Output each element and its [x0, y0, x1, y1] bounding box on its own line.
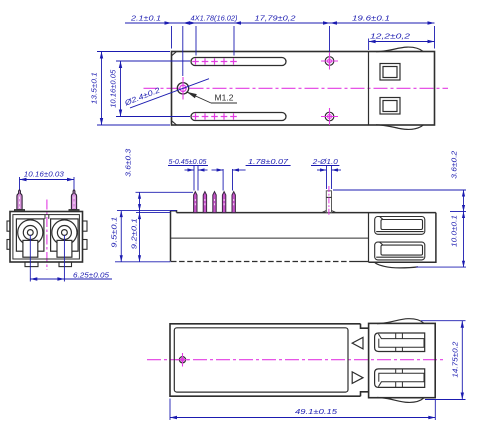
bottom port 2 outer — [375, 369, 425, 388]
side body mid line — [171, 237, 369, 239]
chamfer bottom-left — [172, 121, 177, 125]
svg-text:19.6±0.1: 19.6±0.1 — [352, 14, 390, 23]
left latch box — [23, 240, 38, 257]
right port inner circles — [57, 226, 71, 240]
svg-text:10.0±0.1: 10.0±0.1 — [450, 215, 459, 247]
dimension 14.75 — [421, 321, 466, 400]
triangle marker lower — [352, 372, 363, 384]
arrows row y23 — [165, 21, 435, 24]
leader M1.2 — [186, 92, 237, 103]
svg-text:2.1±0.1: 2.1±0.1 — [130, 14, 161, 23]
bottom tab right — [59, 262, 72, 267]
pin 1 — [194, 192, 197, 213]
right port square — [51, 219, 79, 251]
dimension 10.16 vertical — [116, 61, 190, 117]
pin 4 — [222, 192, 225, 213]
svg-text:10.16±0.05: 10.16±0.05 — [109, 69, 118, 108]
svg-text:5-0.45±0.05: 5-0.45±0.05 — [169, 157, 208, 166]
square hole upper — [380, 64, 400, 81]
side body bottom hidden line — [171, 261, 351, 263]
front view centerline — [46, 200, 48, 271]
side tab right lower — [83, 240, 88, 250]
svg-text:14.75±0.2: 14.75±0.2 — [451, 341, 460, 378]
svg-text:10.16±0.03: 10.16±0.03 — [24, 170, 65, 179]
svg-text:2-Ø1.0: 2-Ø1.0 — [312, 157, 339, 166]
latch arc top — [376, 47, 424, 52]
pin 2 — [203, 192, 206, 213]
centerline bottom view — [147, 359, 445, 361]
front gap notch lines — [45, 215, 49, 219]
leader d2.4 — [130, 79, 209, 108]
bottom view hole — [176, 353, 189, 367]
bottom view connector section — [369, 323, 436, 397]
dimension 3.6±0.2 / 10.0±0.1 right — [333, 190, 466, 267]
connector section divider — [368, 52, 370, 126]
dimension 3.6±0.3 left — [115, 192, 193, 261]
target symbol bottom (hole 2-d1.0) — [321, 108, 338, 125]
latch arc bottom — [376, 125, 424, 130]
dimension 49.1 — [170, 399, 435, 421]
bottom tab left — [25, 262, 38, 267]
dimension 12.2 — [369, 41, 435, 43]
chamfer top-left — [172, 52, 177, 56]
top slot — [191, 58, 286, 66]
dimension line row y23 — [125, 22, 435, 24]
svg-text:13.5±0.1: 13.5±0.1 — [90, 72, 99, 104]
svg-text:M1.2: M1.2 — [215, 92, 234, 102]
dimension 6.25±0.05 — [30, 235, 112, 282]
side bottom arc — [375, 262, 419, 268]
right pin — [69, 190, 79, 212]
triangle marker upper — [352, 337, 363, 349]
svg-text:17,79±0,2: 17,79±0,2 — [255, 14, 297, 23]
front body outer — [10, 212, 83, 263]
hole M1.2 — [177, 77, 188, 100]
bottom port 2 inner — [378, 369, 424, 388]
side slot lower — [375, 242, 425, 260]
bottom port 1 inner — [378, 333, 424, 352]
svg-text:6.25±0.05: 6.25±0.05 — [73, 270, 110, 279]
square hole lower — [380, 98, 400, 115]
bottom port 1 outer — [375, 333, 425, 352]
svg-text:3.6±0.2: 3.6±0.2 — [450, 150, 459, 179]
svg-text:12,2±0,2: 12,2±0,2 — [370, 32, 411, 41]
left port square — [16, 219, 44, 251]
left port inner circles — [23, 226, 37, 240]
bottom latch arc bottom — [377, 398, 424, 403]
svg-text:1.78±0.07: 1.78±0.07 — [248, 157, 289, 166]
side slot upper — [375, 217, 425, 235]
extension lines top row — [172, 26, 435, 76]
side body bottom right solid — [351, 261, 369, 263]
side section right/bottom edge — [369, 213, 436, 263]
right latch box — [57, 240, 72, 257]
bottom latch arc top — [377, 319, 424, 324]
top view body outline — [172, 52, 435, 126]
svg-text:9.2±0.1: 9.2±0.1 — [130, 218, 139, 249]
bottom slot — [191, 113, 286, 121]
pin 6 (d1.0) — [323, 186, 336, 216]
bottom view body outline — [170, 324, 369, 396]
dimension 10.16±0.03 — [20, 177, 75, 190]
top slot plus marks — [192, 58, 237, 65]
dimension 1.78 — [212, 166, 291, 191]
side tab left lower — [7, 240, 10, 250]
bottom view inner panel — [174, 328, 348, 392]
svg-text:4X1.78(16.02): 4X1.78(16.02) — [191, 14, 238, 23]
bottom slot plus marks — [192, 113, 237, 120]
side section divider — [368, 213, 370, 263]
svg-text:3.6±0.3: 3.6±0.3 — [124, 148, 133, 177]
left port big circle — [18, 220, 43, 245]
side tab right upper — [83, 221, 88, 231]
leader 5-0.45 — [168, 166, 208, 191]
leader 2-d1.0 — [311, 166, 341, 190]
pin 3 — [213, 192, 216, 213]
svg-text:49.1±0.15: 49.1±0.15 — [295, 407, 338, 416]
right port big circle — [52, 220, 77, 245]
pin 5 — [232, 192, 235, 213]
side tab left upper — [7, 221, 10, 231]
side body outline — [171, 211, 436, 262]
left pin — [14, 190, 24, 212]
svg-text:9.5±0.1: 9.5±0.1 — [110, 217, 119, 248]
dimension 13.5 vertical — [97, 52, 170, 126]
front body inner — [13, 215, 80, 259]
centerline top view — [144, 87, 449, 89]
target symbol top (hole 2-d1.0) — [321, 53, 338, 70]
